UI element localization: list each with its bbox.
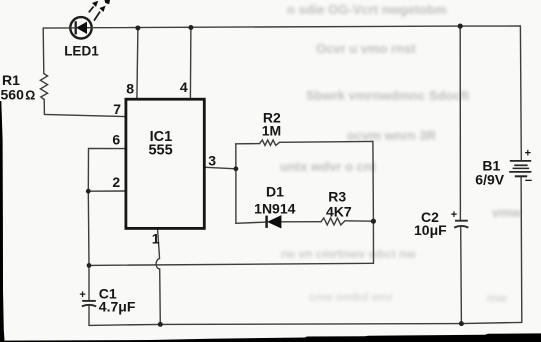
svg-text:10μF: 10μF	[414, 222, 447, 238]
svg-text:+: +	[79, 289, 85, 301]
svg-text:R3: R3	[328, 189, 346, 205]
svg-text:3: 3	[208, 153, 216, 169]
svg-text:7: 7	[113, 101, 121, 117]
svg-text:D1: D1	[266, 184, 284, 200]
svg-text:4K7: 4K7	[326, 204, 352, 220]
svg-text:Ω: Ω	[25, 88, 35, 102]
svg-text:555: 555	[148, 143, 172, 159]
svg-text:+: +	[525, 148, 531, 160]
svg-text:4: 4	[180, 79, 188, 95]
svg-text:1M: 1M	[262, 123, 281, 139]
svg-text:1: 1	[152, 231, 160, 247]
svg-text:–: –	[525, 172, 532, 187]
svg-text:4.7μF: 4.7μF	[99, 299, 136, 315]
svg-text:ocvm wnrn 3R: ocvm wnrn 3R	[347, 128, 436, 143]
svg-text:Ocvr u vmo rnst: Ocvr u vmo rnst	[316, 41, 416, 56]
svg-text:560: 560	[1, 86, 25, 102]
svg-text:1N914: 1N914	[254, 200, 295, 216]
svg-text:8: 8	[126, 80, 134, 96]
svg-text:cnw ombd wnr: cnw ombd wnr	[309, 290, 393, 304]
svg-text:LED1: LED1	[64, 44, 99, 59]
svg-text:rw vn cmrtnwv wbct nw: rw vn cmrtnwv wbct nw	[281, 247, 416, 261]
svg-text:untx wdvr o cnt: untx wdvr o cnt	[280, 159, 377, 174]
svg-text:6/9V: 6/9V	[475, 172, 504, 188]
svg-text:Sbwrk vmrnwdmnc Sdocft: Sbwrk vmrnwdmnc Sdocft	[306, 88, 470, 103]
svg-text:2: 2	[112, 174, 120, 190]
svg-text:n sdie OG-Vcrt nwgetobm: n sdie OG-Vcrt nwgetobm	[287, 2, 447, 17]
svg-text:6: 6	[112, 131, 120, 147]
svg-text:vmw: vmw	[492, 205, 522, 220]
svg-text:+: +	[451, 209, 457, 221]
svg-text:mw: mw	[487, 291, 508, 305]
